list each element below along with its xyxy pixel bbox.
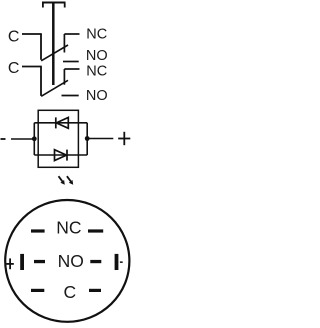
svg-text:C: C — [8, 28, 20, 45]
NO contact pole 1 — [63, 61, 79, 63]
minus mark — [120, 261, 123, 263]
branch wire bottom — [34, 154, 87, 156]
wire left — [11, 138, 34, 140]
moving contact pole 2 — [41, 80, 68, 96]
light arrow 1 — [59, 176, 65, 185]
svg-text:NC: NC — [56, 218, 81, 238]
node left — [32, 136, 37, 141]
LED D2 (cathode right) — [55, 150, 68, 161]
NC contact pole 1 — [64, 34, 79, 53]
C terminal bar left — [31, 289, 44, 292]
svg-text:NO: NO — [86, 88, 108, 104]
wire C1 — [22, 33, 42, 35]
actuator plunger T bar — [42, 3, 66, 8]
svg-text:NC: NC — [86, 27, 107, 43]
light arrow 2 — [67, 176, 73, 185]
svg-text:NO: NO — [86, 48, 108, 64]
LED D1 (cathode left) — [56, 117, 69, 128]
actuator stem — [52, 2, 55, 85]
rail left — [33, 123, 35, 155]
LED package outline — [38, 110, 78, 167]
moving contact pole 1 — [41, 45, 68, 61]
svg-text:C: C — [8, 60, 20, 77]
NC terminal bar right — [88, 229, 103, 232]
node right — [85, 136, 90, 141]
common post pole 1 — [40, 34, 42, 60]
branch wire top — [34, 122, 87, 124]
wire C2 — [22, 66, 42, 68]
C terminal bar right — [89, 289, 101, 292]
NO terminal bar right — [90, 260, 101, 263]
NC contact pole 2 — [64, 69, 79, 85]
svg-text:NC: NC — [86, 64, 107, 80]
minus terminal label — [1, 138, 6, 140]
anode bar left — [20, 254, 24, 270]
common post pole 2 — [40, 67, 42, 96]
NC terminal bar left — [31, 229, 45, 232]
rail right — [86, 123, 88, 155]
NO contact pole 2 — [62, 95, 79, 97]
plus terminal label — [118, 132, 130, 145]
button rear face circle — [5, 200, 129, 322]
svg-text:C: C — [64, 282, 77, 302]
svg-text:NO: NO — [58, 251, 84, 271]
cathode bar right — [115, 254, 119, 270]
plus mark — [6, 258, 13, 269]
NO terminal bar left — [34, 260, 45, 263]
wire right — [87, 138, 113, 140]
